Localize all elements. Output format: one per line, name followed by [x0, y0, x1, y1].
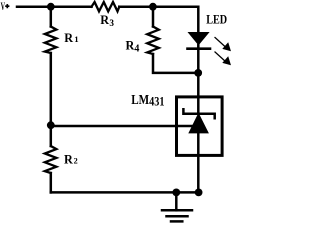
wire R1 to node D	[50, 53, 53, 126]
svg-text:LED: LED	[206, 13, 227, 27]
junction node C	[194, 69, 202, 77]
regulator U1 anode triangle	[188, 113, 209, 134]
wire node A to R3	[51, 5, 92, 8]
ground	[162, 192, 192, 221]
wire node C to U1 cathode	[197, 73, 200, 114]
junction node D	[47, 121, 55, 129]
wire R4 to node C	[153, 54, 198, 73]
svg-text:V: V	[1, 0, 6, 13]
resistor R3	[92, 2, 120, 11]
svg-text:LM431: LM431	[131, 92, 164, 109]
LED D1 cathode bar	[188, 47, 211, 50]
IC U1 LM431 box	[177, 97, 223, 155]
wire node B to R4	[152, 7, 155, 27]
LED light arrow 1	[215, 38, 231, 52]
junction node E ground tap	[172, 189, 180, 197]
wire U1 anode to node F	[197, 134, 200, 193]
wire node D to R2	[50, 126, 53, 146]
wire reference node D to U1	[51, 125, 193, 128]
wire node A to R1	[50, 7, 53, 27]
svg-text:R2: R2	[64, 153, 78, 167]
regulator U1 cathode bar (zener style)	[183, 109, 214, 118]
svg-text:R3: R3	[100, 13, 114, 28]
junction node A	[47, 3, 55, 11]
wire R2 to bottom rail corner	[50, 173, 53, 192]
wire V+ to node A	[17, 5, 51, 8]
resistor R4	[147, 27, 159, 55]
wire LED cathode to node C	[197, 45, 200, 73]
wire node B to LED anode	[153, 7, 198, 32]
svg-text:R1: R1	[64, 31, 78, 45]
resistor R2	[45, 146, 57, 173]
LED light arrow 2	[215, 52, 231, 65]
svg-text:R4: R4	[126, 39, 140, 55]
resistor R1	[45, 27, 57, 54]
LED D1 triangle	[188, 32, 210, 45]
wire bottom rail	[51, 191, 199, 194]
junction node B	[149, 3, 157, 11]
wire R3 to node B	[119, 5, 153, 8]
junction node F	[195, 189, 203, 197]
